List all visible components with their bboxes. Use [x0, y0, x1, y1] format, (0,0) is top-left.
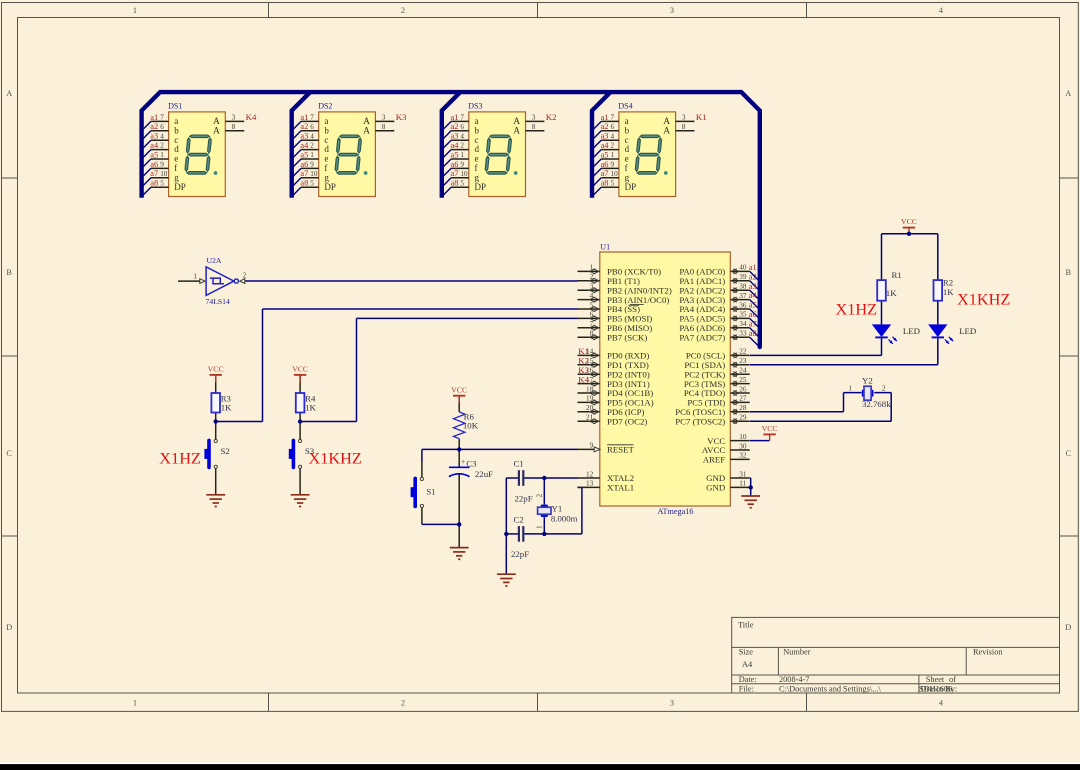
svg-text:1: 1 — [611, 151, 615, 159]
svg-text:8: 8 — [590, 330, 594, 338]
svg-text:DP: DP — [625, 182, 637, 192]
svg-text:a2: a2 — [749, 272, 757, 281]
svg-text:10: 10 — [460, 170, 468, 178]
svg-text:PA7 (ADC7): PA7 (ADC7) — [679, 332, 725, 342]
svg-text:VCC: VCC — [208, 365, 224, 374]
svg-text:2: 2 — [590, 273, 594, 281]
svg-text:22pF: 22pF — [511, 549, 529, 559]
svg-text:A: A — [663, 127, 670, 137]
svg-text:5: 5 — [590, 301, 594, 309]
svg-text:a6: a6 — [749, 310, 757, 319]
svg-text:4: 4 — [590, 292, 594, 300]
svg-text:12: 12 — [586, 470, 594, 478]
svg-text:29: 29 — [739, 414, 747, 422]
svg-text:U1: U1 — [600, 242, 610, 251]
svg-text:10: 10 — [739, 433, 747, 441]
svg-text:Y1: Y1 — [552, 503, 563, 513]
svg-text:R1: R1 — [892, 270, 902, 280]
svg-text:9: 9 — [310, 161, 314, 169]
svg-text:2: 2 — [243, 272, 247, 280]
svg-text:10: 10 — [160, 170, 168, 178]
svg-text:a8: a8 — [150, 179, 158, 188]
svg-text:22uF: 22uF — [475, 469, 493, 479]
svg-text:22pF: 22pF — [515, 493, 533, 503]
svg-text:10K: 10K — [463, 421, 479, 431]
svg-text:a3: a3 — [451, 132, 459, 141]
svg-text:ATmega16: ATmega16 — [658, 507, 694, 516]
svg-text:7: 7 — [310, 114, 314, 122]
svg-text:VCC: VCC — [762, 424, 778, 433]
svg-text:DS2: DS2 — [318, 101, 332, 110]
svg-text:B: B — [6, 268, 12, 277]
svg-text:a4: a4 — [749, 291, 758, 300]
svg-text:2: 2 — [536, 494, 544, 498]
svg-text:A: A — [6, 89, 12, 98]
svg-text:a7: a7 — [451, 169, 459, 178]
svg-text:DS4: DS4 — [618, 101, 632, 110]
svg-text:a2: a2 — [601, 122, 609, 131]
svg-text:22: 22 — [739, 348, 747, 356]
svg-text:7: 7 — [611, 114, 615, 122]
svg-text:26: 26 — [739, 385, 747, 393]
svg-text:3: 3 — [670, 699, 674, 708]
svg-text:a1: a1 — [601, 113, 609, 122]
svg-text:2: 2 — [611, 142, 615, 150]
svg-text:K4: K4 — [246, 112, 257, 122]
svg-text:25: 25 — [739, 376, 747, 384]
svg-text:Drawn By:: Drawn By: — [921, 685, 958, 694]
svg-text:32.768k: 32.768k — [862, 399, 891, 409]
svg-text:2: 2 — [310, 142, 314, 150]
svg-text:3: 3 — [382, 113, 386, 121]
svg-text:D: D — [1065, 623, 1071, 632]
svg-text:37: 37 — [739, 292, 747, 300]
svg-text:10: 10 — [611, 170, 619, 178]
svg-text:+: + — [461, 457, 465, 466]
svg-text:13: 13 — [586, 480, 594, 488]
svg-text:6: 6 — [590, 311, 594, 319]
svg-text:B: B — [1066, 268, 1072, 277]
svg-text:DP: DP — [174, 182, 186, 192]
svg-text:3: 3 — [590, 283, 594, 291]
svg-text:Title: Title — [738, 621, 754, 630]
svg-text:7: 7 — [460, 114, 464, 122]
svg-text:9: 9 — [611, 161, 615, 169]
svg-text:a4: a4 — [601, 141, 610, 150]
svg-text:2: 2 — [460, 142, 464, 150]
svg-text:1K: 1K — [305, 402, 316, 412]
svg-text:8: 8 — [682, 123, 686, 131]
svg-text:4: 4 — [460, 132, 464, 140]
svg-text:LED: LED — [903, 326, 920, 336]
svg-text:a7: a7 — [150, 169, 158, 178]
svg-text:DS3: DS3 — [468, 101, 482, 110]
svg-text:a3: a3 — [601, 132, 609, 141]
svg-text:a5: a5 — [601, 150, 609, 159]
svg-text:LED: LED — [959, 326, 976, 336]
svg-text:6: 6 — [310, 123, 314, 131]
svg-text:C: C — [1066, 449, 1072, 458]
svg-text:2: 2 — [882, 384, 886, 392]
svg-text:A: A — [513, 127, 520, 137]
svg-text:21: 21 — [586, 414, 594, 422]
svg-text:1: 1 — [848, 384, 852, 392]
svg-text:DP: DP — [475, 182, 487, 192]
svg-text:11: 11 — [739, 480, 746, 488]
svg-text:4: 4 — [310, 132, 314, 140]
svg-text:33: 33 — [739, 330, 747, 338]
svg-text:a1: a1 — [749, 263, 757, 272]
svg-text:VCC: VCC — [901, 217, 917, 226]
svg-text:a7: a7 — [300, 169, 308, 178]
svg-text:PB7 (SCK): PB7 (SCK) — [607, 332, 647, 342]
svg-text:of: of — [949, 675, 956, 684]
svg-text:3: 3 — [232, 113, 236, 121]
svg-text:8: 8 — [532, 123, 536, 131]
svg-text:34: 34 — [739, 320, 747, 328]
svg-text:AREF: AREF — [703, 455, 726, 465]
svg-text:a5: a5 — [749, 301, 757, 310]
svg-text:30: 30 — [739, 442, 747, 450]
svg-text:S1: S1 — [426, 487, 435, 497]
svg-text:31: 31 — [739, 470, 747, 478]
svg-text:9: 9 — [160, 161, 164, 169]
svg-text:39: 39 — [739, 273, 747, 281]
svg-text:a3: a3 — [300, 132, 308, 141]
svg-text:Y2: Y2 — [862, 376, 873, 386]
svg-text:a5: a5 — [300, 150, 308, 159]
svg-text:23: 23 — [739, 357, 747, 365]
svg-text:1K: 1K — [943, 287, 954, 297]
svg-text:4: 4 — [611, 132, 615, 140]
svg-text:28: 28 — [739, 404, 747, 412]
svg-text:XTAL1: XTAL1 — [607, 483, 634, 493]
svg-text:a6: a6 — [601, 160, 609, 169]
svg-text:7: 7 — [590, 320, 594, 328]
svg-text:a7: a7 — [749, 319, 757, 328]
svg-text:1: 1 — [160, 151, 164, 159]
svg-text:Number: Number — [783, 648, 810, 657]
svg-text:9: 9 — [460, 161, 464, 169]
svg-text:2008-4-7: 2008-4-7 — [779, 675, 809, 684]
svg-text:K1: K1 — [696, 112, 707, 122]
svg-text:6: 6 — [160, 123, 164, 131]
svg-text:2: 2 — [160, 142, 164, 150]
svg-text:a5: a5 — [150, 150, 158, 159]
svg-text:1: 1 — [536, 525, 544, 529]
svg-text:a3: a3 — [749, 282, 757, 291]
svg-text:C:\Documents and Settings\...\: C:\Documents and Settings\...\ — [779, 685, 881, 694]
svg-text:A4: A4 — [742, 660, 753, 669]
svg-text:U2A: U2A — [207, 256, 222, 265]
svg-text:19: 19 — [586, 395, 594, 403]
svg-text:D: D — [6, 623, 12, 632]
svg-text:X1KHZ: X1KHZ — [309, 449, 362, 468]
svg-text:Size: Size — [739, 648, 754, 657]
svg-text:8: 8 — [382, 123, 386, 131]
svg-text:DP: DP — [324, 182, 336, 192]
svg-text:1: 1 — [460, 151, 464, 159]
svg-text:8: 8 — [232, 123, 236, 131]
svg-text:a1: a1 — [451, 113, 459, 122]
svg-text:K4: K4 — [578, 374, 589, 384]
svg-text:a8: a8 — [300, 179, 308, 188]
svg-text:X1HZ: X1HZ — [159, 449, 201, 468]
svg-text:A: A — [1065, 89, 1071, 98]
svg-text:VCC: VCC — [292, 365, 308, 374]
svg-text:Revision: Revision — [973, 648, 1003, 657]
svg-text:35: 35 — [739, 311, 747, 319]
svg-text:a1: a1 — [150, 113, 158, 122]
svg-text:File:: File: — [739, 685, 754, 694]
svg-text:1K: 1K — [221, 402, 232, 412]
svg-text:40: 40 — [739, 264, 747, 272]
svg-text:C1: C1 — [514, 459, 524, 469]
svg-text:a2: a2 — [300, 122, 308, 131]
svg-text:a2: a2 — [451, 122, 459, 131]
svg-text:C3: C3 — [466, 458, 477, 468]
svg-text:8.000m: 8.000m — [551, 514, 578, 524]
svg-text:1: 1 — [133, 699, 137, 708]
svg-text:K3: K3 — [396, 112, 407, 122]
svg-text:Date:: Date: — [739, 675, 757, 684]
svg-text:a3: a3 — [150, 132, 158, 141]
svg-text:2: 2 — [401, 6, 405, 15]
svg-text:A: A — [363, 127, 370, 137]
svg-text:5: 5 — [611, 179, 615, 187]
svg-text:18: 18 — [586, 385, 594, 393]
svg-text:C2: C2 — [514, 515, 524, 525]
svg-text:5: 5 — [160, 179, 164, 187]
svg-text:5: 5 — [310, 179, 314, 187]
svg-text:3: 3 — [682, 113, 686, 121]
svg-text:32: 32 — [739, 452, 747, 460]
svg-text:38: 38 — [739, 283, 747, 291]
svg-text:a4: a4 — [150, 141, 159, 150]
svg-text:74LS14: 74LS14 — [206, 297, 231, 306]
svg-text:3: 3 — [670, 6, 674, 15]
svg-text:DS1: DS1 — [168, 101, 182, 110]
svg-text:9: 9 — [590, 442, 594, 450]
svg-text:C: C — [6, 449, 12, 458]
svg-text:X1HZ: X1HZ — [836, 299, 878, 318]
svg-text:S2: S2 — [221, 446, 230, 456]
svg-text:2: 2 — [401, 699, 405, 708]
svg-text:a6: a6 — [451, 160, 459, 169]
svg-text:PC7 (TOSC2): PC7 (TOSC2) — [675, 416, 725, 426]
svg-text:a1: a1 — [300, 113, 308, 122]
svg-text:GND: GND — [706, 483, 725, 493]
svg-text:a4: a4 — [300, 141, 309, 150]
svg-text:a2: a2 — [150, 122, 158, 131]
svg-text:10: 10 — [310, 170, 318, 178]
svg-text:a8: a8 — [749, 329, 757, 338]
svg-text:Sheet: Sheet — [926, 675, 945, 684]
svg-text:1: 1 — [133, 6, 137, 15]
svg-text:1: 1 — [310, 151, 314, 159]
svg-text:24: 24 — [739, 367, 747, 375]
svg-text:A: A — [213, 127, 220, 137]
svg-text:6: 6 — [611, 123, 615, 131]
svg-text:a7: a7 — [601, 169, 609, 178]
svg-text:3: 3 — [532, 113, 536, 121]
svg-text:PD7 (OC2): PD7 (OC2) — [607, 416, 647, 426]
svg-text:36: 36 — [739, 301, 747, 309]
svg-text:1K: 1K — [886, 288, 897, 298]
svg-text:a5: a5 — [451, 150, 459, 159]
svg-text:a8: a8 — [451, 179, 459, 188]
svg-text:a6: a6 — [300, 160, 308, 169]
svg-text:X1KHZ: X1KHZ — [957, 289, 1010, 308]
svg-text:4: 4 — [160, 132, 164, 140]
svg-text:a6: a6 — [150, 160, 158, 169]
svg-text:6: 6 — [460, 123, 464, 131]
svg-text:a8: a8 — [601, 179, 609, 188]
svg-text:K2: K2 — [546, 112, 557, 122]
svg-text:27: 27 — [739, 395, 747, 403]
svg-text:5: 5 — [460, 179, 464, 187]
svg-text:7: 7 — [160, 114, 164, 122]
svg-text:RESET: RESET — [607, 445, 635, 455]
svg-text:a4: a4 — [451, 141, 460, 150]
svg-text:VCC: VCC — [451, 385, 467, 394]
svg-text:1: 1 — [193, 273, 197, 281]
svg-text:1: 1 — [590, 264, 594, 272]
svg-text:20: 20 — [586, 404, 594, 412]
